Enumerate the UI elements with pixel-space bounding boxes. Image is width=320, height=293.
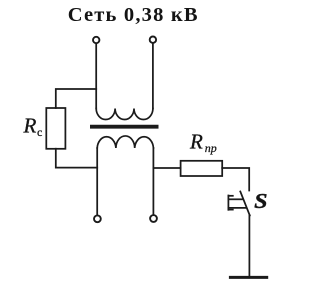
wire: from secondary right lead to resistor Rpr — [153, 167, 180, 169]
transformer core bar — [92, 125, 157, 129]
wire: left lead from top terminal to primary winding — [95, 44, 97, 108]
label Rpr — [189, 129, 217, 155]
wire: from resistor Rc bottom to secondary left lead — [56, 149, 97, 168]
ground bar — [230, 276, 266, 279]
wire: secondary right lead down to bottom terminal — [152, 148, 154, 215]
svg-text:с: с — [37, 125, 42, 139]
node: bottom terminal left — [94, 215, 101, 222]
switch S blade — [240, 192, 250, 216]
node: top terminal right — [150, 37, 156, 43]
resistor Rpr — [181, 161, 223, 176]
wire: secondary left lead down to bottom terminal — [96, 148, 98, 215]
svg-text:R: R — [23, 114, 37, 138]
label Rc — [23, 114, 43, 140]
node: bottom terminal right — [150, 215, 157, 222]
wire: right lead from top terminal to primary winding — [152, 44, 154, 109]
node: top terminal left — [93, 37, 99, 43]
winding L1 transformer primary (3 arcs) — [96, 109, 153, 120]
svg-text:пр: пр — [205, 141, 217, 155]
svg-text:R: R — [189, 129, 203, 153]
winding L2 transformer secondary (3 arcs) — [97, 136, 153, 148]
svg-text:Сеть 0,38 кВ: Сеть 0,38 кВ — [68, 4, 199, 26]
label S — [254, 189, 267, 213]
switch S actuator bracket — [228, 196, 245, 210]
wire: from primary left lead to resistor Rc top — [56, 89, 96, 108]
resistor Rc — [46, 108, 65, 149]
svg-text:S: S — [254, 189, 267, 213]
wire: from switch to ground — [248, 215, 250, 277]
wire: from resistor Rpr to switch top terminal — [222, 168, 249, 191]
label: title "Сеть 0,38 кВ" — [68, 4, 199, 26]
